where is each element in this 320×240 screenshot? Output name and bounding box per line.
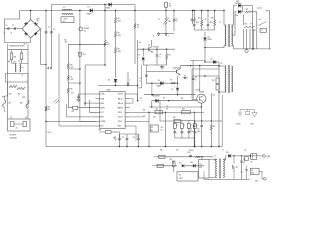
svg-text:D60 C61: D60 C61 — [189, 150, 194, 152]
svg-text:C23: C23 — [166, 106, 169, 108]
svg-text:FR302: FR302 — [208, 39, 212, 41]
diode D1 on rail B — [87, 7, 93, 16]
varistor Z1 — [158, 11, 172, 32]
svg-text:C5: C5 — [190, 19, 192, 21]
svg-text:THR2: THR2 — [22, 97, 25, 99]
wire pin14 row — [130, 120, 150, 122]
svg-text:1000u: 1000u — [197, 131, 201, 133]
opto IC6 — [251, 154, 257, 164]
svg-text:8 C1: 8 C1 — [101, 126, 104, 128]
label zig — [9, 94, 21, 96]
diode D11 — [151, 94, 197, 107]
svg-text:R15: R15 — [198, 18, 201, 20]
svg-text:2.2: 2.2 — [137, 27, 139, 29]
choke T0 windings — [12, 64, 29, 73]
svg-text:5 CT: 5 CT — [101, 112, 104, 114]
wire bridge right out — [41, 29, 47, 65]
wire vert x105 — [104, 4, 105, 40]
wire output rail — [234, 48, 272, 50]
vert x200 — [198, 66, 200, 92]
wire sb row1 — [157, 156, 213, 158]
svg-text:VCC 11: VCC 11 — [118, 117, 123, 119]
wire x85 lower — [85, 103, 95, 106]
svg-text:2 1IN-: 2 1IN- — [101, 98, 105, 100]
wire y134 row — [120, 134, 139, 141]
svg-text:R18: R18 — [182, 108, 185, 110]
wire tap y83 — [68, 82, 80, 84]
svg-text:C25: C25 — [140, 98, 143, 100]
wire sb gnd row — [204, 171, 250, 179]
resistor R12 box — [216, 85, 219, 91]
wire x222 vert — [221, 95, 223, 147]
resistor R13 box — [72, 106, 78, 113]
resistor R7b — [166, 49, 171, 65]
capacitor C17 col — [197, 121, 203, 146]
svg-text:817: 817 — [251, 162, 253, 164]
svg-text:R: R — [197, 125, 198, 127]
wire x68 bottom — [68, 93, 72, 108]
wire caps bottom bus — [194, 29, 214, 31]
capacitor C32 — [241, 166, 248, 180]
wire collector row — [180, 65, 219, 66]
svg-text:L3: L3 — [261, 30, 263, 32]
svg-text:C6: C6 — [205, 19, 207, 21]
resistor R4 — [114, 37, 121, 53]
label R33 — [143, 110, 156, 119]
label c1c2 — [4, 33, 13, 35]
wire pin9 row — [130, 94, 139, 101]
svg-text:C2 10: C2 10 — [118, 121, 122, 123]
label R31b — [163, 98, 184, 101]
wire out vert 252 — [252, 6, 253, 50]
wire rail A corner drop — [45, 64, 46, 65]
transistor Q5 small — [79, 27, 89, 32]
svg-text:C5 0.1: C5 0.1 — [24, 44, 28, 46]
resistor R17 box — [155, 108, 163, 113]
svg-text:D33: D33 — [226, 152, 229, 154]
svg-text:C17: C17 — [197, 129, 200, 131]
svg-text:D31: D31 — [179, 163, 182, 165]
svg-text:C9: C9 — [140, 78, 142, 80]
svg-text:R16: R16 — [211, 18, 214, 20]
loop rect wires — [5, 74, 28, 83]
AC box text — [10, 133, 18, 139]
svg-text:R32: R32 — [170, 159, 173, 161]
svg-text:R17: R17 — [156, 108, 159, 110]
label ntc2 — [2, 97, 25, 99]
svg-text:IC3: IC3 — [179, 175, 181, 177]
ground rail — [46, 146, 222, 147]
svg-text:C13: C13 — [122, 137, 125, 139]
wire IC4 out — [259, 171, 263, 179]
svg-text:R21: R21 — [245, 24, 248, 26]
svg-text:ZNR: ZNR — [20, 103, 23, 105]
svg-text:2200u: 2200u — [190, 131, 194, 133]
svg-text:0.1: 0.1 — [176, 21, 178, 23]
wire out vert 250 — [249, 29, 251, 49]
transformer T3 — [209, 156, 226, 179]
svg-text:R6: R6 — [65, 40, 67, 42]
capacitor C13 — [122, 134, 129, 147]
svg-text:N: N — [153, 36, 154, 38]
svg-text:C20: C20 — [213, 95, 216, 97]
divider bank rails — [175, 120, 195, 138]
transistor Q2 — [173, 66, 180, 84]
svg-text:VCC 16: VCC 16 — [118, 94, 123, 96]
wire x160 vert — [138, 83, 152, 95]
svg-text:C: C — [197, 133, 198, 135]
diode D25A — [238, 4, 241, 8]
sb row1 parts — [188, 152, 203, 158]
wire vert x47 primary — [45, 10, 46, 147]
resistor R6 — [67, 44, 74, 69]
svg-text:R: R — [177, 125, 178, 127]
svg-text:T1: T1 — [219, 22, 221, 24]
resistor R10 box — [79, 52, 86, 56]
resistor R16 col — [211, 10, 216, 30]
resistor RV1 — [8, 50, 13, 63]
svg-text:C60: C60 — [176, 150, 179, 152]
transformer T1 — [219, 22, 232, 47]
wire vert x52 lower — [52, 5, 60, 127]
label C23 — [166, 106, 169, 110]
transistor Q10 — [233, 156, 239, 180]
svg-text:10u: 10u — [161, 129, 163, 131]
capacitor C5B col — [205, 10, 210, 30]
svg-text:D25: D25 — [236, 1, 239, 3]
op-amp U1 TL494 — [96, 89, 130, 129]
wire T1 primary top — [223, 10, 224, 25]
capacitor C14 — [133, 134, 140, 147]
AC pin N — [153, 32, 160, 38]
box IC4 7805 — [250, 168, 259, 174]
svg-text:1 1IN+: 1 1IN+ — [101, 94, 105, 96]
wire out vert 246 — [246, 29, 248, 49]
wire out vert 2535 — [246, 29, 254, 50]
resistor R32 vert — [170, 159, 176, 172]
transistor Q1 — [144, 40, 159, 52]
wire y49 row — [138, 49, 175, 50]
svg-text:R20: R20 — [246, 9, 249, 11]
capacitor C8h — [183, 75, 189, 79]
divider bank RC columns — [173, 120, 197, 138]
resistor R7 — [67, 69, 74, 81]
diode D7 down — [172, 83, 180, 95]
svg-text:T3: T3 — [215, 156, 217, 158]
resistor R31 box — [152, 164, 164, 167]
svg-text:R5: R5 — [137, 25, 139, 27]
svg-text:D9: D9 — [211, 59, 213, 61]
resistor RZ1 — [9, 85, 17, 87]
wire out top right — [257, 7, 262, 9]
wire y44 link — [65, 40, 106, 46]
wire out vert 243 — [243, 15, 245, 49]
wire left col x7 — [7, 50, 9, 119]
wire sb box links — [197, 175, 200, 177]
legend gnd1 — [238, 110, 242, 116]
capacitor C11 top — [71, 93, 81, 102]
wire T1 sec mid — [231, 12, 236, 35]
svg-text:10u: 10u — [115, 139, 117, 141]
wire T2 left verts — [218, 62, 219, 147]
svg-text:R: R — [191, 125, 192, 127]
wire rail A — [52, 4, 136, 6]
svg-text:Q10: Q10 — [236, 167, 239, 169]
svg-text:C3: C3 — [48, 27, 50, 29]
svg-text:L0: L0 — [22, 67, 24, 69]
svg-text:+5VSB: +5VSB — [266, 156, 270, 158]
svg-text:Q1: Q1 — [148, 45, 150, 47]
box IC2 TL431 — [137, 112, 158, 146]
wire x205 to Q2 — [204, 48, 205, 63]
wire X-cap row — [5, 28, 23, 30]
wire top row y60 — [190, 59, 205, 61]
svg-text:D1: D1 — [88, 7, 90, 9]
svg-text:C32: C32 — [241, 172, 244, 174]
svg-text:R11: R11 — [212, 80, 215, 82]
wire pin13 row — [130, 116, 144, 118]
svg-text:C2: C2 — [12, 25, 14, 27]
svg-text:NTC: NTC — [9, 103, 12, 105]
wire out vert 256 — [251, 12, 256, 49]
wire y65 row — [143, 65, 166, 83]
outcap bank top rail — [194, 120, 222, 121]
note text — [10, 44, 25, 47]
wire rail B left drop — [5, 11, 20, 43]
svg-text:VR: VR — [18, 61, 20, 63]
svg-text:+5V: +5V — [259, 19, 262, 21]
svg-text:F1: F1 — [169, 4, 171, 6]
svg-text:D8: D8 — [208, 37, 210, 39]
capacitor C6 — [156, 49, 162, 65]
box IC5 — [199, 157, 210, 178]
capacitor CY small — [46, 67, 52, 69]
fuse F1 — [165, 2, 172, 11]
wire x115 lower — [115, 53, 117, 78]
diode D4 down — [138, 49, 145, 88]
label rv — [13, 57, 16, 64]
box IC3 — [177, 172, 198, 181]
capacitor C3 — [45, 27, 55, 33]
legend earth — [252, 110, 257, 118]
wire tap y69 — [68, 68, 80, 70]
svg-text:D30: D30 — [188, 152, 191, 154]
svg-text:R8: R8 — [169, 55, 171, 57]
svg-text:PS-ON: PS-ON — [236, 124, 240, 126]
resistor R2 — [114, 10, 121, 23]
transistor Q3 — [196, 89, 206, 107]
wire vert x137 mid — [137, 40, 141, 101]
capacitor C9 col — [140, 78, 142, 82]
diode D32 — [185, 162, 204, 167]
resistor R22 box — [99, 130, 120, 140]
box C31 — [245, 157, 249, 161]
svg-text:115V: 115V — [13, 62, 16, 64]
wire y83 row — [146, 83, 178, 84]
wire pin10-11 — [130, 99, 134, 104]
wire T1 sec top — [231, 6, 236, 25]
wire bank to gnd — [194, 138, 195, 147]
resistor R3 — [114, 23, 121, 37]
capacitor C2 — [12, 25, 16, 30]
svg-text:0.1u: 0.1u — [63, 21, 66, 23]
svg-text:TL494: TL494 — [106, 89, 111, 92]
wire loop drops — [8, 82, 28, 99]
resistor RV2 — [18, 50, 23, 63]
svg-text:C1: C1 — [6, 25, 8, 27]
wire x194 up — [149, 107, 202, 121]
svg-text:6 RT: 6 RT — [101, 117, 104, 119]
resistor R20 — [245, 9, 252, 13]
wire right edge drop — [265, 11, 269, 49]
wire pin12 row — [130, 112, 205, 113]
wire x79.9 lower — [80, 120, 96, 122]
caps bank labels — [196, 22, 213, 24]
label bridge2 — [24, 44, 28, 46]
thermistor NTC — [3, 96, 11, 112]
svg-text:D26: D26 — [236, 15, 239, 17]
svg-text:R22: R22 — [99, 130, 102, 132]
wire T1 primary bottom — [205, 46, 224, 48]
diode D8 down — [203, 32, 211, 48]
inductor L2 loop — [245, 49, 248, 52]
diode D33 — [226, 152, 231, 158]
svg-text:R8: R8 — [71, 89, 73, 91]
svg-text:C: C — [177, 133, 178, 135]
wire diode cathbus — [241, 6, 252, 12]
diode D25 label — [235, 1, 241, 5]
svg-text:0.5: 0.5 — [250, 24, 252, 26]
wire bank top feed — [173, 120, 176, 122]
terminal +5SB2 — [255, 178, 266, 183]
svg-text:Z1: Z1 — [158, 19, 160, 21]
svg-text:R67: R67 — [18, 94, 21, 96]
svg-text:2.2K: 2.2K — [48, 109, 51, 111]
svg-text:IC2: IC2 — [151, 127, 153, 129]
terminal +5VSB — [263, 155, 270, 158]
resistor R30 box — [154, 155, 166, 158]
svg-text:C: C — [184, 133, 185, 135]
svg-text:BR1: BR1 — [37, 19, 40, 21]
svg-text:R6: R6 — [71, 65, 73, 67]
out labels — [253, 19, 262, 32]
wire horiz y85 above IC — [98, 85, 137, 86]
wire y69 row — [192, 68, 219, 70]
wire x85 vert — [84, 64, 105, 106]
diode D2 on rail A — [106, 3, 112, 10]
transformer T2 — [219, 63, 232, 93]
svg-text:THR1: THR1 — [2, 97, 5, 99]
wire base row y71 — [146, 71, 177, 73]
resistor R23 col — [210, 93, 215, 146]
wire sb out row — [231, 155, 262, 156]
svg-text:1u: 1u — [140, 80, 142, 82]
ground sym mid — [160, 65, 164, 69]
capacitor C12 — [114, 134, 121, 147]
diode D31 — [179, 163, 184, 168]
diode D6 — [157, 80, 164, 88]
svg-text:R: R — [184, 125, 185, 127]
wire bridge bottom drop — [30, 38, 32, 43]
svg-text:C15: C15 — [161, 127, 164, 129]
svg-text:C11: C11 — [71, 93, 74, 95]
resistor R19 box — [173, 117, 180, 123]
diag marks — [54, 99, 60, 104]
svg-text:E2 9: E2 9 — [118, 126, 121, 128]
wire pin1 left — [79, 93, 96, 95]
capacitor CX2 — [191, 10, 197, 24]
svg-text:R2: R2 — [118, 18, 120, 20]
wire bridge top to rail — [30, 10, 31, 20]
wire left col x28 — [27, 50, 29, 119]
capacitor C30 — [240, 156, 245, 180]
resistor R5 — [134, 24, 139, 65]
bridge rectifier BR1 — [22, 19, 41, 39]
label out2 — [222, 150, 246, 152]
svg-text:GND: GND — [255, 181, 258, 183]
wire x79.9 vert — [79, 10, 80, 122]
wire x165 vert — [161, 112, 166, 146]
svg-text:2.2uF: 2.2uF — [48, 132, 51, 134]
svg-text:R10: R10 — [83, 54, 86, 56]
svg-text:R31: R31 — [181, 98, 184, 100]
wire T1 sec bottom — [231, 46, 233, 49]
vert x193 cap — [192, 60, 197, 99]
resistor R11 box — [212, 78, 219, 84]
legend box — [246, 110, 250, 115]
svg-text:R23: R23 — [213, 126, 216, 128]
svg-text:L1: L1 — [63, 7, 65, 9]
resistor RZ2 — [17, 87, 25, 89]
wire pin16 row — [130, 126, 137, 141]
diode D25B — [236, 10, 241, 17]
resistor R1 — [104, 40, 110, 65]
capacitor C1 — [6, 25, 10, 30]
svg-text:2IN- 15: 2IN- 15 — [118, 98, 123, 100]
svg-text:C12: C12 — [114, 137, 117, 139]
varistor S — [20, 100, 29, 109]
svg-text:220u: 220u — [210, 22, 213, 24]
svg-text:R7: R7 — [71, 77, 73, 79]
svg-text:C6: C6 — [159, 54, 161, 56]
svg-text:REF 13: REF 13 — [118, 107, 123, 109]
inductor L1 on rail — [62, 7, 72, 10]
legend text — [236, 124, 255, 126]
label sb — [160, 150, 194, 152]
svg-text:R66: R66 — [9, 94, 12, 96]
svg-text:7805: 7805 — [251, 173, 254, 175]
wire pin5 link — [90, 100, 96, 112]
AC input box — [8, 116, 30, 131]
diode D9 — [205, 59, 219, 64]
box L3 — [260, 28, 266, 32]
wire y94 row — [144, 94, 196, 95]
svg-text:2.2K: 2.2K — [153, 117, 156, 119]
svg-text:D5: D5 — [108, 80, 110, 82]
line filter choke box — [61, 14, 74, 23]
svg-text:R13: R13 — [72, 111, 75, 113]
resistor R24 small — [45, 106, 50, 112]
legend wire — [240, 109, 255, 111]
svg-text:C22: C22 — [137, 134, 140, 136]
wire mains top rail B — [20, 10, 225, 12]
label choke — [22, 75, 24, 77]
svg-text:C62: C62 — [244, 150, 246, 152]
wire pin6 link — [67, 104, 96, 117]
svg-text:R3: R3 — [118, 33, 120, 35]
wire y76 row — [192, 75, 219, 76]
wire vert x135 — [134, 5, 135, 24]
